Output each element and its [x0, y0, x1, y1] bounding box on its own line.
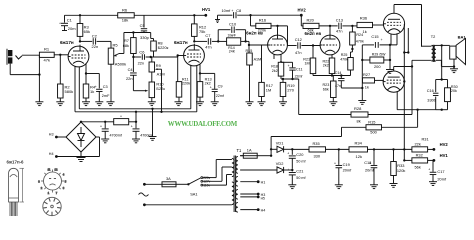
svg-text:+: +	[287, 168, 289, 172]
resistor R6	[118, 7, 135, 22]
svg-text:R23: R23	[323, 83, 330, 87]
wire fuse junction up	[270, 137, 272, 157]
wire T1 tap 127v	[203, 167, 232, 181]
svg-text:R9: R9	[156, 63, 161, 68]
svg-text:1M: 1M	[266, 88, 271, 93]
node V2 grid	[177, 54, 179, 56]
svg-text:C2: C2	[92, 34, 98, 39]
ground under C17	[429, 182, 437, 186]
resistor R25	[340, 53, 353, 76]
resistor R19	[280, 79, 294, 102]
wire splitter junction row	[313, 74, 351, 76]
wire V5 screen stub	[403, 28, 409, 54]
svg-text:R16: R16	[259, 17, 267, 22]
svg-text:R36: R36	[360, 15, 368, 20]
wire V6 cathode leg	[396, 91, 398, 109]
terminal H3 left	[49, 133, 66, 139]
ground under R4	[82, 102, 90, 106]
resistor R2	[58, 55, 74, 102]
resistor R29 200 5W	[362, 53, 390, 70]
wire V1 heater leg A	[74, 66, 76, 112]
svg-text:C11: C11	[296, 68, 303, 72]
svg-text:R34: R34	[355, 141, 363, 146]
svg-text:580k: 580k	[65, 89, 74, 94]
capacitor C14	[335, 71, 364, 89]
wire input shield down	[10, 64, 40, 76]
capacitor C8	[222, 8, 242, 18]
svg-text:R25: R25	[341, 53, 348, 57]
capacitor C19	[334, 149, 352, 184]
svg-text:1k: 1k	[90, 89, 94, 94]
svg-text:C10: C10	[229, 22, 237, 27]
ground under C3	[95, 102, 103, 106]
resistor R20	[301, 15, 319, 32]
transformer T2	[431, 34, 436, 62]
ground under C18	[370, 185, 378, 189]
ground under C22	[101, 139, 109, 143]
resistor R28	[351, 106, 368, 123]
input plug mark	[16, 56, 23, 60]
svg-text:220k: 220k	[182, 82, 190, 86]
svg-text:47k: 47k	[44, 58, 50, 63]
wire V5 cathode legs	[391, 33, 397, 45]
svg-text:R1: R1	[44, 47, 50, 52]
svg-text:+: +	[210, 85, 212, 89]
wire HV rail to HV1	[134, 14, 206, 16]
svg-text:+: +	[381, 38, 383, 42]
ground under R19	[279, 102, 287, 106]
svg-text:120k: 120k	[397, 168, 405, 173]
ground loop left	[358, 101, 366, 105]
filter resistor	[105, 116, 137, 125]
terminal HV1 right	[428, 153, 449, 162]
node V2 anode	[193, 40, 195, 42]
svg-text:+: +	[288, 64, 290, 68]
resistor R36	[357, 15, 373, 34]
terminal H4 right	[240, 208, 265, 212]
resistor R7	[123, 33, 136, 54]
svg-text:SA1: SA1	[190, 191, 197, 196]
ground under speaker	[450, 69, 458, 73]
svg-text:C1: C1	[67, 17, 73, 22]
svg-text:R24: R24	[356, 33, 363, 37]
svg-text:270: 270	[287, 88, 294, 93]
wire T1 HT top to fuse	[240, 155, 243, 157]
svg-text:4700mf: 4700mf	[110, 134, 123, 138]
svg-text:10мФ: 10мФ	[228, 34, 237, 38]
wire feedback tap	[441, 45, 443, 79]
svg-text:C4: C4	[128, 67, 134, 72]
wire V5 topcap loop	[394, 5, 422, 47]
capacitor C22 4700mf	[100, 122, 123, 139]
tube V5 output	[383, 5, 404, 35]
wire R15-500 right	[382, 126, 418, 128]
capacitor C15	[371, 34, 382, 48]
svg-text:50 mf: 50 mf	[296, 176, 306, 180]
svg-text:2mF: 2mF	[102, 94, 110, 98]
wire screen row	[124, 31, 151, 33]
svg-text:24К: 24К	[229, 50, 236, 54]
svg-text:А1М: А1М	[254, 58, 262, 62]
capacitor C10	[229, 22, 237, 33]
socket top view	[38, 168, 67, 196]
terminal H1	[240, 180, 265, 184]
ground under R5	[107, 102, 115, 106]
ground under C9	[211, 102, 219, 106]
wire feedback from output	[397, 109, 447, 128]
wire bridge plus rail	[80, 121, 107, 123]
capacitor C5	[140, 15, 150, 40]
wire R1 left down to ground	[38, 55, 40, 102]
resistor R12	[192, 15, 207, 41]
wire V1 heater leg B	[78, 67, 80, 109]
svg-text:R15: R15	[246, 49, 253, 53]
wire bridge right to H4	[96, 137, 100, 157]
svg-text:C7: C7	[205, 33, 210, 38]
terminal HV2 right	[428, 142, 449, 151]
svg-text:C5: C5	[140, 23, 146, 28]
trimmer R8 B220k	[151, 41, 169, 57]
wire V2 anode to C7	[194, 40, 207, 42]
svg-text:R27: R27	[363, 72, 370, 77]
svg-text:C6: C6	[139, 50, 144, 55]
svg-text:+: +	[428, 168, 430, 172]
capacitor C11	[281, 62, 303, 79]
svg-text:+: +	[100, 124, 102, 128]
resistor R31	[412, 137, 429, 152]
resistor R15 A1M	[246, 45, 262, 102]
resistor R15 500	[366, 119, 382, 134]
resistor R23	[323, 76, 337, 102]
svg-text:R28: R28	[354, 106, 362, 111]
input connector XS1	[7, 49, 12, 65]
svg-text:1A: 1A	[247, 148, 252, 153]
svg-text:22n: 22n	[138, 60, 145, 65]
svg-text:C21: C21	[296, 169, 303, 174]
svg-text:12k: 12k	[356, 154, 362, 159]
wire R27 to V6 grid	[375, 79, 384, 81]
svg-text:47n: 47n	[336, 29, 343, 34]
svg-text:HV2: HV2	[440, 142, 449, 147]
fuse F1 3A	[144, 176, 188, 187]
trimmer R10 B22k	[149, 72, 165, 102]
ground under C23	[132, 139, 140, 143]
heater bus B	[75, 111, 197, 113]
wire V3 cathode leg	[273, 54, 275, 59]
capacitor C2	[92, 34, 99, 50]
svg-text:R15: R15	[368, 119, 375, 124]
mains AC symbol	[139, 193, 149, 196]
svg-text:200: 200	[374, 64, 381, 69]
resistor R30	[436, 78, 458, 109]
svg-text:H5: H5	[261, 196, 265, 200]
terminal HV2	[298, 8, 307, 17]
svg-text:C13: C13	[336, 17, 343, 22]
svg-text:C3: C3	[103, 85, 108, 89]
wire HV rail row	[292, 148, 412, 150]
svg-text:110v: 110v	[203, 183, 210, 187]
tube outline drawing	[8, 168, 24, 216]
svg-text:C16: C16	[427, 88, 434, 93]
svg-text:C14: C14	[335, 71, 342, 75]
wire R36 to V5 grid	[373, 24, 385, 26]
svg-text:65k: 65k	[84, 29, 90, 34]
svg-text:330p: 330p	[140, 35, 150, 40]
svg-text:47n: 47n	[335, 84, 341, 88]
node R1-R2 junction	[59, 54, 61, 56]
svg-text:R29 /5W: R29 /5W	[372, 53, 386, 57]
wire T1 tap 220v	[203, 160, 232, 178]
wire R9 wiper down	[160, 69, 162, 113]
wire R20 to V4 anode	[319, 25, 338, 36]
terminal H4 left	[49, 152, 100, 158]
wire HV rail left	[65, 14, 118, 16]
ground under R2	[56, 102, 64, 106]
ground under R29	[386, 70, 394, 74]
resistor R34	[349, 141, 368, 159]
resistor R4	[83, 84, 96, 102]
capacitor C20	[287, 149, 306, 169]
svg-text:22mf: 22mf	[295, 74, 303, 78]
svg-text:20mf: 20mf	[343, 168, 353, 173]
wire cathode to loop	[362, 44, 397, 46]
svg-text:+: +	[334, 161, 336, 165]
svg-text:C9: C9	[218, 85, 223, 89]
svg-text:3A: 3A	[166, 176, 171, 181]
svg-text:20k: 20k	[451, 89, 457, 93]
svg-text:C18: C18	[364, 160, 371, 165]
wire V3 anode to C12	[288, 26, 297, 46]
ground under R23	[329, 102, 337, 106]
svg-text:20mf: 20mf	[437, 176, 447, 181]
resistor R35	[309, 141, 326, 159]
wire R1 to grid node	[54, 54, 68, 56]
svg-text:2k2: 2k2	[323, 64, 329, 68]
wire psu to R15-500	[271, 127, 366, 136]
wire C7 to network	[212, 40, 227, 42]
resistor R24	[350, 26, 364, 58]
ground stub at C8	[215, 15, 220, 22]
wire T2 secondary bottom	[436, 60, 455, 68]
node V1 anode	[79, 40, 81, 42]
resistor R21	[303, 46, 315, 76]
svg-text:6ж17н: 6ж17н	[60, 40, 74, 45]
wire T2 secondary top	[436, 44, 450, 46]
resistor R16	[251, 15, 272, 32]
capacitor C3	[95, 74, 110, 102]
svg-text:75k: 75k	[199, 29, 205, 34]
svg-text:20m: 20m	[68, 26, 76, 31]
wire C8 rail	[218, 14, 302, 16]
svg-text:+: +	[287, 152, 289, 156]
svg-text:6ж17н: 6ж17н	[174, 40, 188, 45]
svg-text:470k: 470k	[356, 39, 364, 43]
svg-text:47n: 47n	[295, 50, 302, 55]
wire C12 to V4 grid	[301, 44, 320, 46]
wire bus A to ground	[151, 108, 153, 137]
svg-text:T1: T1	[237, 148, 243, 153]
wire T1 HT tap to VD2	[239, 169, 241, 171]
svg-text:6н2п ев: 6н2п ев	[246, 31, 263, 36]
svg-text:6ж17п-6: 6ж17п-6	[7, 159, 25, 164]
svg-text:1M: 1M	[305, 62, 310, 66]
wire C13 to R36	[342, 25, 357, 27]
wire screen to R8	[151, 33, 154, 42]
svg-text:C17: C17	[437, 169, 444, 174]
svg-text:Б220к: Б220к	[158, 45, 169, 50]
terminal HV1	[202, 7, 211, 17]
svg-text:330: 330	[314, 154, 321, 159]
wire speaker to ground	[453, 59, 455, 69]
svg-text:R32: R32	[416, 152, 423, 157]
svg-text:H3: H3	[49, 133, 54, 137]
wire V2 cathode to R13	[199, 64, 201, 81]
heater bus A	[79, 108, 191, 110]
wire C10 branch	[218, 30, 247, 43]
svg-text:H4: H4	[261, 208, 266, 212]
terminal mains N	[143, 203, 146, 206]
wire bridge bottom ground	[77, 152, 86, 162]
capacitor C6	[138, 50, 145, 66]
svg-text:22k: 22k	[415, 141, 421, 146]
terminal mains L	[143, 183, 146, 186]
resistor R3	[77, 15, 90, 41]
wire R29 to ground	[389, 45, 391, 70]
capacitor C7	[205, 33, 212, 50]
wire R28 right	[368, 114, 412, 116]
node VD1 out	[291, 148, 293, 150]
svg-text:C15: C15	[371, 34, 378, 39]
svg-text:10mf: 10mf	[222, 8, 232, 13]
capacitor C23 4700mf	[131, 122, 154, 139]
wire V1 anode to C2	[80, 40, 92, 42]
bridge rectifier	[66, 122, 96, 152]
svg-text:R31: R31	[422, 137, 429, 142]
svg-text:68k: 68k	[308, 28, 314, 32]
wire C2 to R5	[97, 41, 111, 48]
svg-text:68k: 68k	[123, 43, 129, 48]
svg-text:HV1: HV1	[440, 153, 449, 158]
socket bottom view	[43, 197, 61, 215]
ground under R33	[390, 184, 398, 188]
svg-text:470k: 470k	[340, 57, 348, 61]
svg-text:2k2: 2k2	[272, 69, 278, 73]
ground under R11	[175, 102, 183, 106]
svg-text:C8: C8	[236, 8, 241, 13]
svg-text:C12: C12	[295, 37, 302, 42]
svg-text:1k: 1k	[365, 84, 369, 89]
svg-text:20mf: 20mf	[365, 168, 375, 173]
svg-text:VD1: VD1	[276, 140, 284, 145]
speaker BA1	[450, 34, 467, 64]
wire V6 anode	[394, 65, 413, 67]
svg-text:BA1: BA1	[458, 34, 467, 39]
wire input to R1	[22, 54, 39, 56]
node R18-R19 junction	[281, 78, 299, 80]
wire T1 tap 110v	[203, 175, 232, 186]
capacitor C13	[336, 17, 343, 33]
capacitor C1	[59, 15, 76, 31]
tube V6 output	[383, 67, 404, 93]
wire V1 cathode to R4	[85, 64, 87, 84]
wire network to V3 grid	[241, 41, 268, 46]
wire loop left to ground	[361, 45, 363, 101]
svg-text:8k: 8k	[357, 119, 361, 124]
svg-text:HV1: HV1	[202, 7, 211, 12]
wire R5 to ground	[110, 64, 112, 102]
diode VD2	[240, 161, 293, 173]
svg-text:4700mf: 4700mf	[140, 134, 153, 138]
diode VD1	[271, 140, 292, 152]
ground bus A	[149, 137, 157, 141]
tube V3 6n2p	[246, 31, 287, 55]
tube V1 6zh17n	[60, 40, 89, 67]
resistor R22	[323, 54, 335, 75]
wire R16 to V3 anode	[271, 25, 288, 36]
ground under input	[35, 102, 43, 106]
ground under R15	[246, 102, 254, 106]
capacitor C16	[427, 80, 439, 110]
wire V2 heater leg A	[190, 65, 192, 109]
wire feedback to R28	[299, 79, 351, 115]
svg-text:H4: H4	[49, 152, 54, 156]
svg-text:500: 500	[370, 130, 377, 135]
svg-text:3300: 3300	[427, 98, 436, 103]
ground under C21	[288, 185, 296, 189]
resistor R32	[403, 152, 428, 169]
svg-text:HV2: HV2	[298, 8, 307, 13]
resistor R11	[176, 57, 190, 102]
potentiometer R9 A1M	[149, 57, 165, 76]
capacitor C9	[210, 73, 224, 101]
resistor R27	[363, 72, 375, 89]
capacitor C21	[287, 168, 306, 185]
wire R13 to C9	[199, 72, 215, 74]
ground under C19	[335, 185, 343, 189]
wire V2 heater leg B	[196, 66, 198, 112]
svg-text:+: +	[131, 124, 133, 128]
wire T2 primary bottom	[412, 60, 432, 114]
svg-text:+: +	[59, 22, 61, 26]
fuse F2 1A	[240, 148, 271, 159]
transformer T1	[232, 148, 242, 212]
resistor R13	[197, 77, 211, 101]
tube V4 6n2p	[305, 31, 340, 55]
svg-text:22n: 22n	[92, 44, 99, 49]
resistor R17	[259, 45, 273, 102]
svg-text:66k: 66k	[323, 88, 329, 92]
svg-text:A500k: A500k	[115, 61, 126, 66]
capacitor C17	[428, 160, 447, 181]
svg-text:T2: T2	[431, 34, 436, 39]
svg-text:R5: R5	[113, 43, 119, 48]
svg-text:18k: 18k	[122, 18, 128, 23]
svg-text:22n: 22n	[126, 76, 133, 81]
svg-text:47n: 47n	[205, 45, 212, 50]
resistor R14	[227, 34, 241, 54]
svg-text:R35: R35	[313, 141, 320, 146]
svg-text:R6: R6	[122, 7, 128, 12]
wire screens down	[403, 24, 405, 160]
terminal H5 right	[240, 196, 265, 201]
svg-text:Б22к: Б22к	[156, 86, 165, 91]
svg-text:H1: H1	[261, 181, 266, 185]
ground under R17	[258, 102, 266, 106]
wire C4 to R10 wiper	[133, 90, 148, 92]
svg-text:+: +	[231, 9, 233, 13]
ground under R13	[196, 102, 204, 106]
svg-text:56k: 56k	[415, 165, 421, 170]
